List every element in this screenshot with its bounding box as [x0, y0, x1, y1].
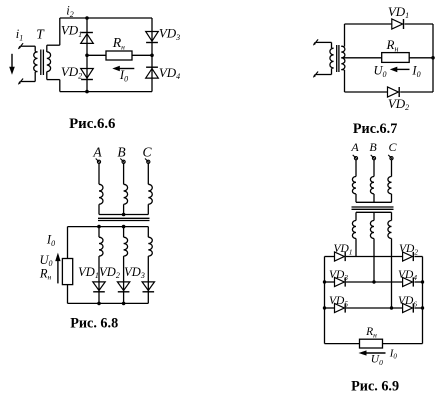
secondary winding C fig6.8	[148, 237, 152, 256]
node secondary rail A fig6.8	[97, 225, 101, 229]
wire right rail fig6.7	[432, 24, 434, 92]
node row2 left fig6.9	[323, 280, 326, 283]
svg-text:B: B	[369, 140, 377, 154]
terminal primary bottom fig6.7	[314, 72, 319, 77]
svg-text:Рис. 6.8: Рис. 6.8	[70, 315, 118, 331]
resistor RH fig6.8	[62, 259, 72, 285]
svg-text:Rн: Rн	[39, 266, 52, 281]
diode VD2	[81, 69, 94, 79]
wire primary neutral fig6.8	[98, 204, 100, 214]
resistor RH fig6.7	[382, 53, 410, 63]
diode VD3 fig6.9	[335, 277, 345, 286]
svg-text:VD1: VD1	[333, 243, 352, 256]
secondary winding B fig6.9	[370, 221, 374, 239]
transformer primary winding fig6.7	[330, 48, 334, 68]
svg-text:Рис.6.7: Рис.6.7	[353, 121, 397, 137]
wire diode leads fig6.8	[98, 256, 100, 303]
wire primary neutral fig6.9	[355, 194, 357, 202]
wire secondary bottom lead fig6.7	[341, 69, 344, 71]
diode VD2 fig6.7	[388, 87, 399, 97]
svg-text:A: A	[350, 140, 359, 154]
svg-text:VD2: VD2	[99, 265, 120, 280]
svg-text:VD1: VD1	[78, 265, 99, 280]
svg-text:VD2: VD2	[388, 96, 409, 112]
diode VD2 fig6.9	[403, 252, 413, 261]
wire phase A to row1	[355, 239, 357, 257]
terminal A fig6.9	[354, 157, 357, 160]
node row2 B fig6.9	[372, 280, 375, 283]
wire top rail fig6.6	[60, 17, 152, 19]
wire phase A lead fig6.9	[355, 160, 357, 177]
wire bottom path fig6.7	[345, 91, 388, 93]
svg-text:VD3: VD3	[124, 265, 145, 280]
node row3 left fig6.9	[323, 306, 326, 309]
diode VD3	[146, 32, 159, 42]
wire left bridge column	[86, 18, 88, 92]
svg-text:VD4: VD4	[159, 65, 180, 81]
svg-text:i2: i2	[66, 4, 73, 19]
diode VD3 fig6.8	[142, 282, 154, 291]
terminal primary top fig6.6	[19, 43, 24, 48]
wire phase B lead fig6.9	[373, 160, 375, 177]
svg-text:U0: U0	[373, 64, 386, 79]
node row2 right fig6.9	[421, 280, 424, 283]
transformer T core	[40, 50, 42, 76]
svg-text:VD1: VD1	[388, 4, 409, 20]
resistor RH fig6.6	[106, 51, 132, 60]
svg-text:A: A	[92, 145, 102, 160]
node right mid fig6.7	[431, 56, 435, 60]
node bottom junction fig6.6	[85, 90, 89, 94]
node row3 right fig6.9	[421, 306, 424, 309]
wire row2 fig6.9	[325, 281, 335, 283]
wire phase C to row3	[391, 239, 393, 309]
primary winding B fig6.9	[370, 177, 374, 194]
wire primary bottom lead fig6.6	[35, 70, 37, 73]
diode VD4	[146, 69, 159, 79]
arrow I0 U0 fig6.9	[366, 352, 386, 354]
wire RH right fig6.6	[132, 54, 152, 56]
svg-text:I0: I0	[46, 233, 55, 248]
secondary winding C fig6.9	[388, 221, 392, 239]
terminal B fig6.9	[372, 157, 375, 160]
wire row3 fig6.9	[325, 307, 335, 309]
wire primary top lead fig6.6	[21, 45, 35, 47]
diode VD4 fig6.9	[403, 277, 413, 286]
svg-text:i1: i1	[16, 27, 23, 42]
primary winding A fig6.9	[352, 177, 356, 194]
node left mid fig6.6	[85, 54, 89, 58]
wire phase C lead fig6.8	[147, 164, 149, 185]
wire phase B lead fig6.8	[123, 164, 125, 185]
wire RH left fig6.6	[87, 54, 106, 56]
wire row1 fig6.9	[325, 256, 335, 258]
wire RH to rail fig6.7	[409, 57, 433, 59]
wire phase C lead fig6.9	[391, 160, 393, 177]
wire secondary bottom to bridge	[46, 72, 48, 80]
wire load branch fig6.8	[67, 227, 69, 304]
wire bottom rail fig6.9	[325, 343, 423, 345]
terminal C fig6.8	[147, 160, 150, 163]
wire phase B to row2	[373, 239, 375, 283]
svg-text:U0: U0	[371, 354, 383, 367]
svg-text:Rн: Rн	[386, 37, 399, 53]
node row3 C fig6.9	[390, 306, 393, 309]
node bottom B fig6.8	[122, 302, 126, 306]
svg-text:Rн: Rн	[365, 326, 377, 339]
primary winding B fig6.8	[124, 184, 128, 204]
svg-text:I0: I0	[119, 68, 128, 83]
arrow I0 fig6.7	[396, 68, 409, 70]
wire bottom rail fig6.8	[68, 302, 149, 304]
arrow I0 fig6.6	[119, 68, 135, 70]
terminal C fig6.9	[390, 157, 393, 160]
node bottom A fig6.8	[97, 302, 101, 306]
svg-text:Рис.6.6: Рис.6.6	[69, 116, 115, 132]
svg-text:VD2: VD2	[61, 64, 82, 80]
diode VD5 fig6.9	[335, 303, 345, 312]
diode VD1 fig6.9	[335, 252, 345, 261]
wire bottom rail fig6.6	[60, 91, 152, 93]
transformer core fig6.7	[336, 45, 338, 72]
transformer secondary winding fig6.7	[341, 46, 345, 69]
svg-text:Rн: Rн	[112, 35, 125, 51]
primary winding C fig6.8	[148, 184, 152, 204]
svg-text:T: T	[36, 26, 45, 41]
svg-text:Рис. 6.9: Рис. 6.9	[351, 378, 399, 394]
transformer core fig6.8	[98, 217, 150, 219]
node primary neutral B fig6.8	[122, 213, 126, 217]
diode VD2 fig6.8	[117, 282, 129, 291]
wire left rail fig6.9	[324, 257, 326, 344]
svg-text:C: C	[388, 140, 397, 154]
wire secondary stubs fig6.8	[98, 227, 100, 238]
node top junction fig6.6	[85, 16, 89, 20]
wire center tap fig6.7	[341, 57, 381, 59]
node secondary rail B fig6.8	[122, 225, 126, 229]
wire primary top lead fig6.7	[316, 41, 332, 43]
resistor RH fig6.9	[360, 339, 383, 348]
wire secondary rail fig6.8	[68, 226, 149, 228]
secondary winding A fig6.9	[352, 221, 356, 239]
terminal A fig6.8	[97, 160, 100, 163]
wire secondary common fig6.9	[356, 211, 392, 213]
terminal primary top fig6.7	[314, 39, 319, 44]
diode VD1 fig6.7	[392, 19, 403, 29]
wire right bridge column	[151, 18, 153, 92]
transformer core fig6.9	[352, 206, 394, 208]
wire top path fig6.7	[345, 23, 392, 25]
primary winding A fig6.8	[99, 184, 103, 204]
svg-text:I0: I0	[389, 347, 398, 360]
arrow I0 U0 fig6.8	[57, 260, 59, 283]
transformer T secondary winding	[47, 52, 51, 72]
wire secondary stubs fig6.9	[355, 212, 357, 220]
wire secondary top to bridge	[46, 45, 48, 52]
secondary winding B fig6.8	[124, 237, 128, 256]
svg-text:C: C	[142, 145, 152, 160]
secondary winding A fig6.8	[99, 237, 103, 256]
svg-text:I0: I0	[411, 64, 420, 79]
primary winding C fig6.9	[388, 177, 392, 194]
arrow i1 current direction	[11, 54, 13, 68]
diode VD1	[81, 34, 94, 44]
svg-text:VD1: VD1	[61, 22, 82, 38]
diode VD6 fig6.9	[403, 303, 413, 312]
terminal primary bottom fig6.6	[19, 79, 24, 84]
wire primary bottom lead fig6.7	[332, 67, 334, 70]
node right mid fig6.6	[150, 54, 154, 58]
terminal B fig6.8	[122, 160, 125, 163]
wire right rail fig6.9	[422, 257, 424, 344]
wire phase A lead fig6.8	[98, 164, 100, 185]
diode VD1 fig6.8	[93, 282, 105, 291]
svg-text:B: B	[117, 145, 125, 160]
transformer T primary winding	[34, 52, 38, 72]
svg-text:VD3: VD3	[159, 25, 180, 41]
wire secondary top lead fig6.7	[344, 24, 346, 47]
